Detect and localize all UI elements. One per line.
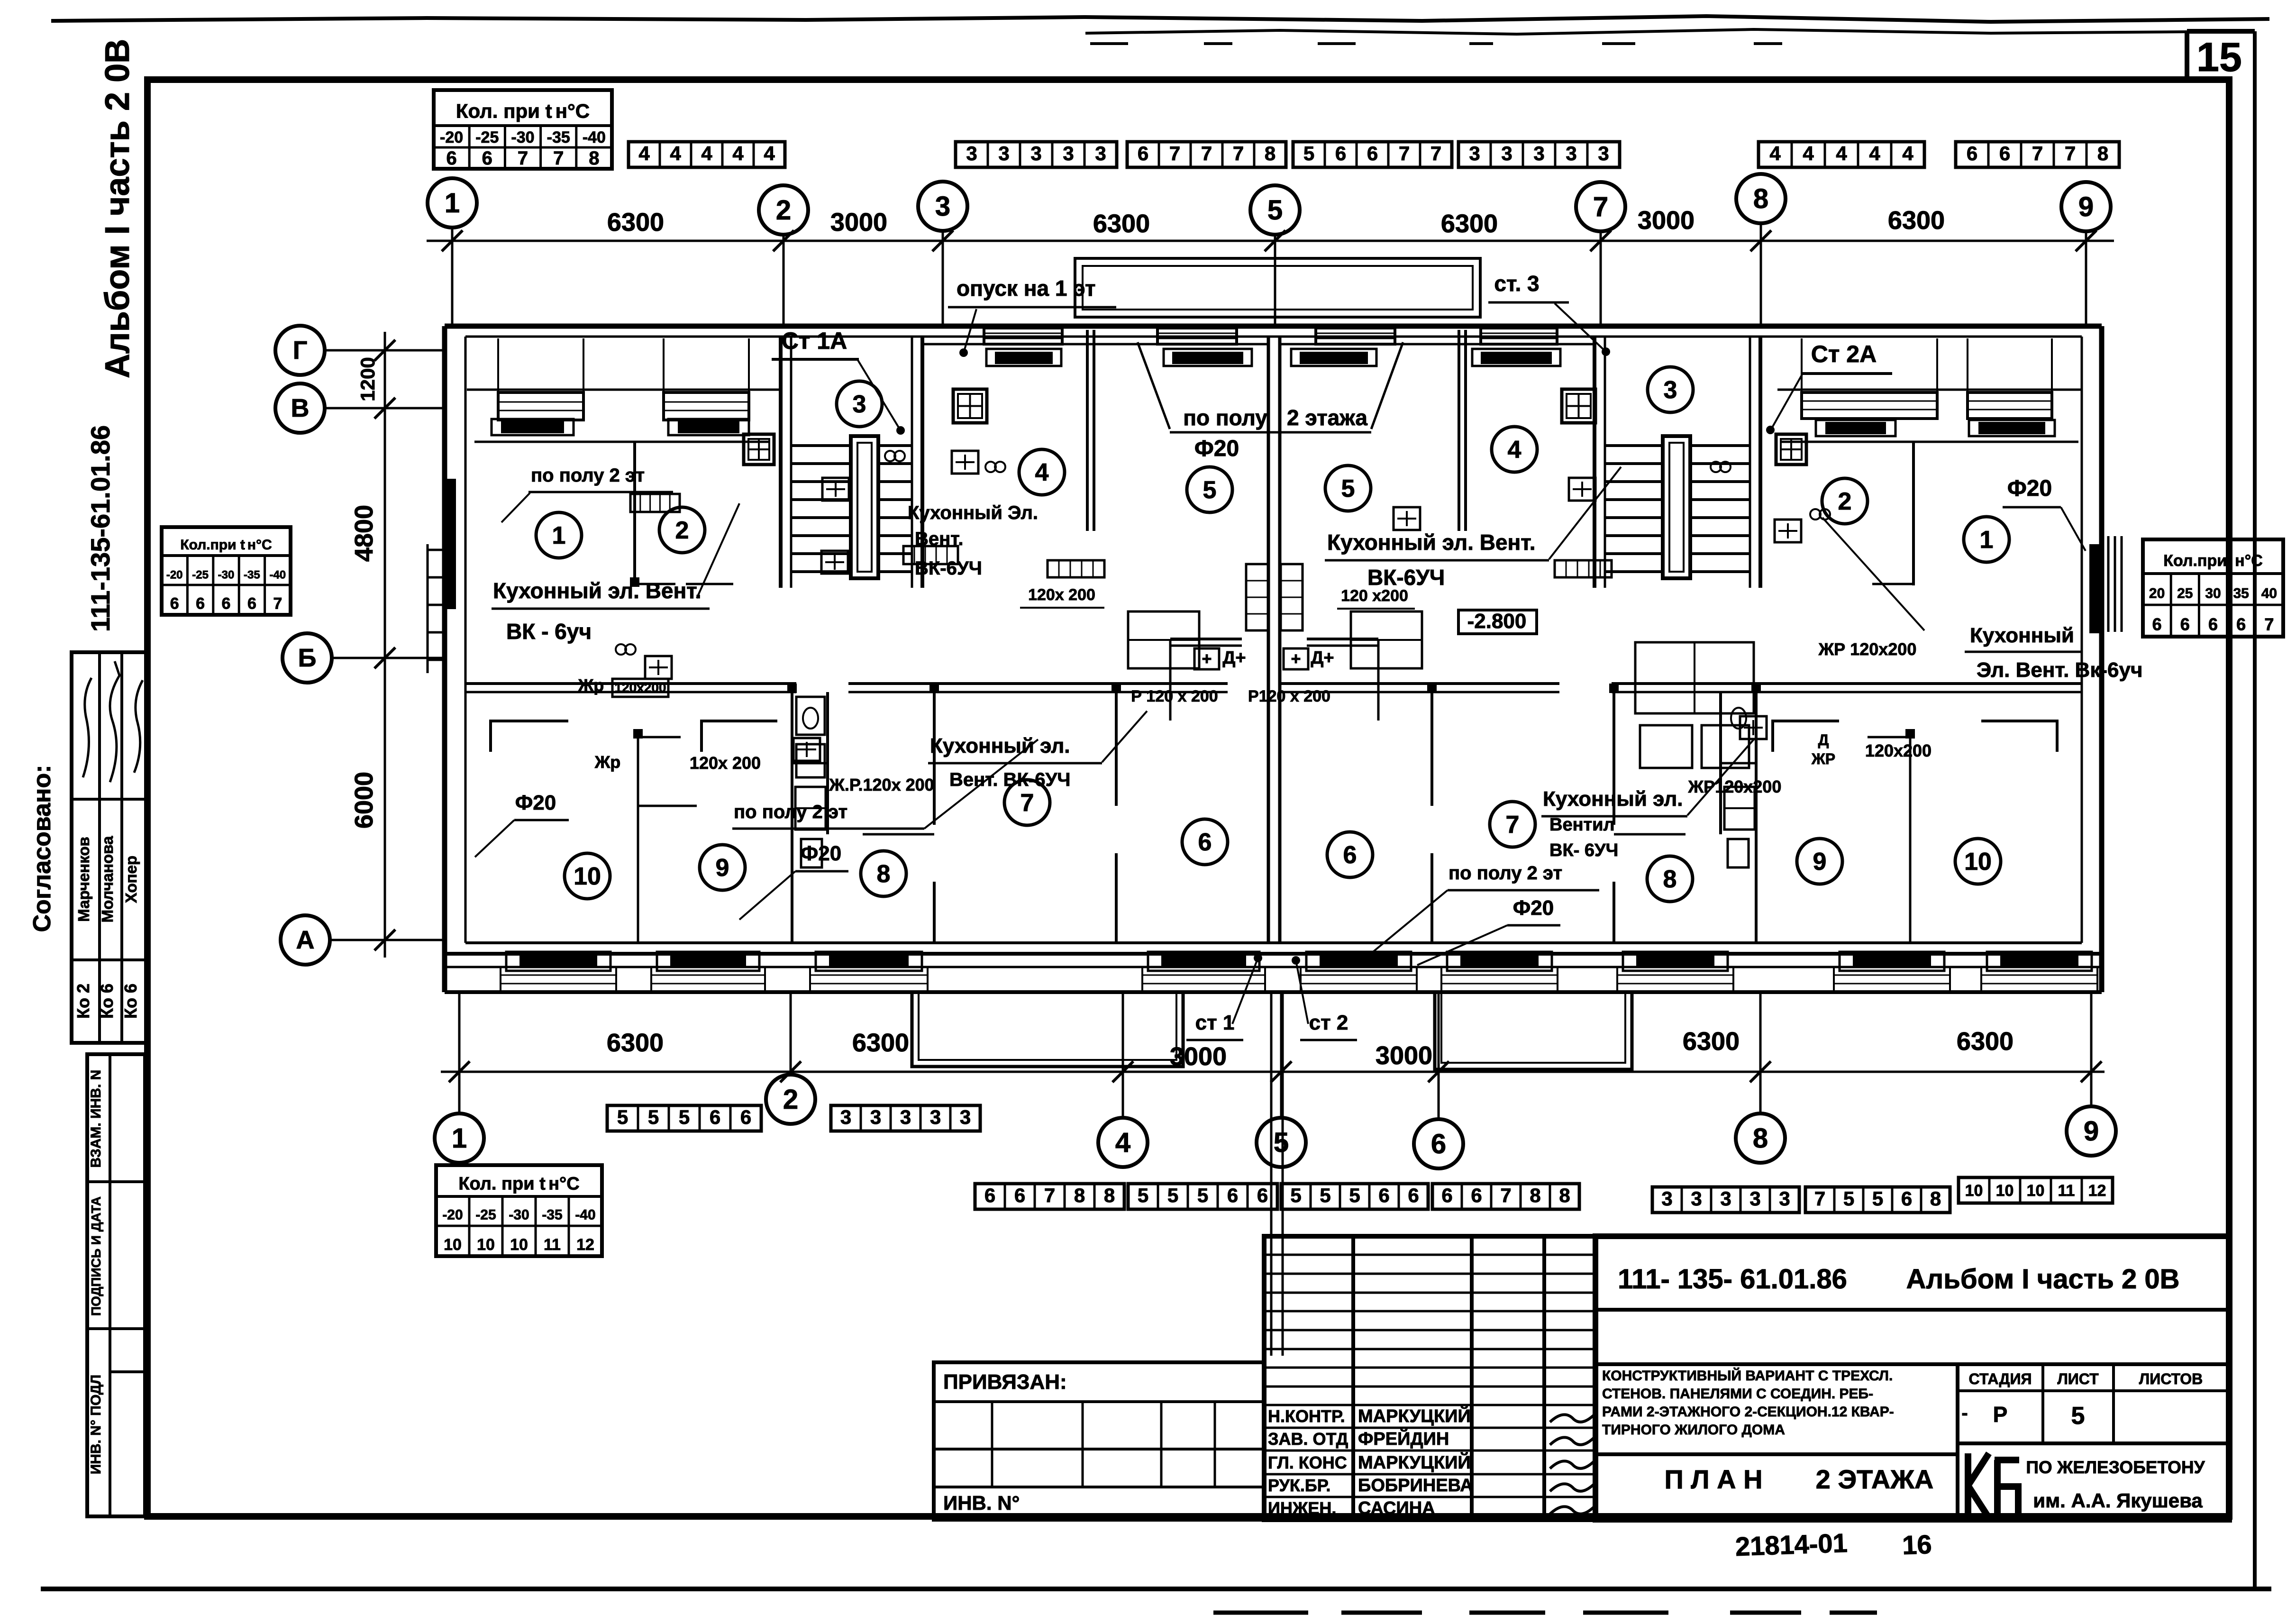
svg-text:6: 6 xyxy=(196,594,205,612)
svg-text:1: 1 xyxy=(445,188,460,219)
svg-text:40: 40 xyxy=(2261,585,2277,601)
svg-text:7: 7 xyxy=(273,594,282,612)
svg-text:-25: -25 xyxy=(475,128,499,146)
svg-text:Кухонный эл.: Кухонный эл. xyxy=(1543,787,1683,811)
svg-text:1: 1 xyxy=(552,522,566,549)
svg-text:РУК.БР.: РУК.БР. xyxy=(1268,1476,1330,1495)
svg-text:10: 10 xyxy=(1996,1182,2014,1200)
svg-text:5: 5 xyxy=(1341,475,1355,502)
svg-text:6300: 6300 xyxy=(1441,210,1498,238)
svg-text:2: 2 xyxy=(675,517,689,544)
svg-text:120х200: 120х200 xyxy=(1865,741,1932,760)
svg-text:7: 7 xyxy=(1430,142,1441,164)
svg-text:5: 5 xyxy=(1274,1127,1289,1158)
svg-text:2 ЭТАЖА: 2 ЭТАЖА xyxy=(1816,1464,1934,1494)
svg-text:3: 3 xyxy=(935,191,950,222)
svg-text:ИНВ. N°: ИНВ. N° xyxy=(943,1492,1020,1514)
svg-text:10: 10 xyxy=(574,863,601,890)
svg-text:-25: -25 xyxy=(192,568,209,581)
svg-text:-: - xyxy=(1961,1403,1968,1423)
svg-text:25: 25 xyxy=(2177,585,2193,601)
svg-text:8: 8 xyxy=(1753,183,1768,214)
svg-text:6300: 6300 xyxy=(1683,1027,1740,1056)
svg-text:3: 3 xyxy=(1691,1187,1702,1210)
svg-text:7: 7 xyxy=(1399,142,1410,164)
svg-text:5: 5 xyxy=(617,1106,628,1128)
svg-text:6300: 6300 xyxy=(607,1029,664,1057)
svg-text:12: 12 xyxy=(576,1236,594,1254)
svg-text:6: 6 xyxy=(170,594,179,612)
svg-text:1: 1 xyxy=(452,1123,467,1154)
svg-text:10: 10 xyxy=(510,1236,528,1254)
svg-text:СТАДИЯ: СТАДИЯ xyxy=(1969,1370,2032,1387)
svg-text:-30: -30 xyxy=(511,128,534,146)
svg-text:Ст 1А: Ст 1А xyxy=(782,328,847,354)
svg-text:6: 6 xyxy=(1999,142,2010,164)
svg-text:САСИНА: САСИНА xyxy=(1358,1498,1435,1518)
svg-text:21814-01: 21814-01 xyxy=(1735,1528,1848,1561)
svg-text:Ф20: Ф20 xyxy=(515,791,556,814)
svg-text:ВК-6УЧ: ВК-6УЧ xyxy=(915,558,982,579)
svg-text:4: 4 xyxy=(701,142,712,164)
svg-text:3: 3 xyxy=(1661,1187,1672,1210)
svg-text:6: 6 xyxy=(1378,1184,1389,1206)
svg-text:Д+: Д+ xyxy=(1311,648,1334,668)
svg-text:6: 6 xyxy=(1198,829,1212,856)
svg-text:5: 5 xyxy=(1872,1187,1883,1210)
svg-text:Кол.приt н°С: Кол.приt н°С xyxy=(2163,552,2263,570)
svg-text:8: 8 xyxy=(589,148,599,169)
svg-text:по полу: по полу xyxy=(1183,405,1267,430)
svg-text:Согласовано:: Согласовано: xyxy=(28,765,56,932)
svg-text:6: 6 xyxy=(1901,1187,1912,1210)
svg-text:8: 8 xyxy=(877,860,891,888)
svg-text:7: 7 xyxy=(553,148,564,169)
svg-text:ЖР: ЖР xyxy=(1811,750,1835,767)
svg-text:6: 6 xyxy=(222,594,231,612)
svg-text:10: 10 xyxy=(2027,1182,2045,1200)
svg-text:6300: 6300 xyxy=(607,208,664,237)
svg-text:ВК- 6УЧ: ВК- 6УЧ xyxy=(1549,840,1618,860)
svg-text:ФРЕЙДИН: ФРЕЙДИН xyxy=(1358,1428,1449,1449)
svg-text:6300: 6300 xyxy=(1093,210,1150,238)
svg-text:СТЕНОВ. ПАНЕЛЯМИ С СОЕДИН. РЕБ: СТЕНОВ. ПАНЕЛЯМИ С СОЕДИН. РЕБ- xyxy=(1602,1386,1873,1402)
svg-text:16: 16 xyxy=(1902,1529,1932,1560)
svg-text:20: 20 xyxy=(2149,585,2165,601)
svg-text:3: 3 xyxy=(900,1106,911,1128)
svg-text:3: 3 xyxy=(1720,1187,1731,1210)
svg-text:Жр: Жр xyxy=(594,752,621,772)
svg-text:3: 3 xyxy=(840,1106,851,1128)
svg-text:им. А.А. Якушева: им. А.А. Якушева xyxy=(2033,1489,2203,1512)
svg-text:8: 8 xyxy=(1559,1184,1570,1206)
svg-text:2: 2 xyxy=(1838,488,1852,515)
svg-text:Д: Д xyxy=(1818,731,1829,748)
svg-text:А: А xyxy=(296,926,315,954)
svg-text:10: 10 xyxy=(444,1236,462,1254)
svg-text:9: 9 xyxy=(2084,1116,2099,1147)
svg-text:+: + xyxy=(1291,649,1301,668)
svg-text:7: 7 xyxy=(1020,789,1034,817)
svg-text:Д+: Д+ xyxy=(1222,648,1246,668)
svg-text:5: 5 xyxy=(679,1106,690,1128)
svg-text:7: 7 xyxy=(1233,142,1244,164)
svg-text:ЛИСТОВ: ЛИСТОВ xyxy=(2139,1370,2203,1387)
svg-text:3: 3 xyxy=(1469,142,1480,164)
svg-text:-40: -40 xyxy=(583,128,606,146)
svg-text:4: 4 xyxy=(1115,1127,1130,1158)
svg-text:5: 5 xyxy=(1303,142,1314,164)
svg-text:3: 3 xyxy=(1779,1187,1790,1210)
svg-text:6: 6 xyxy=(482,148,492,169)
svg-text:Марченков: Марченков xyxy=(75,837,92,922)
svg-text:5: 5 xyxy=(1843,1187,1854,1210)
svg-text:Ф20: Ф20 xyxy=(1513,896,1554,920)
svg-text:3: 3 xyxy=(1749,1187,1760,1210)
svg-text:4: 4 xyxy=(670,142,681,164)
svg-text:7: 7 xyxy=(1169,142,1180,164)
svg-text:Р: Р xyxy=(1993,1402,2008,1427)
svg-text:2: 2 xyxy=(783,1084,798,1115)
svg-text:120х200: 120х200 xyxy=(614,680,666,695)
svg-text:Ф20: Ф20 xyxy=(2007,476,2052,501)
svg-text:ВЗАМ. ИНВ. N: ВЗАМ. ИНВ. N xyxy=(88,1070,104,1168)
svg-text:30: 30 xyxy=(2205,585,2221,601)
svg-text:2: 2 xyxy=(776,195,791,226)
svg-text:Ко 6: Ко 6 xyxy=(121,984,140,1019)
svg-text:-20: -20 xyxy=(166,568,183,581)
svg-text:8: 8 xyxy=(1104,1184,1115,1206)
svg-text:опуск на 1 эт: опуск на 1 эт xyxy=(957,276,1096,301)
svg-text:ПОДПИСЬ И ДАТА: ПОДПИСЬ И ДАТА xyxy=(89,1196,103,1316)
svg-text:7: 7 xyxy=(2264,615,2274,634)
svg-text:ст. 3: ст. 3 xyxy=(1494,271,1539,296)
svg-text:7: 7 xyxy=(518,148,528,169)
svg-text:Р120 х 200: Р120 х 200 xyxy=(1248,687,1330,705)
svg-text:Эл. Вент. Вк-6уч: Эл. Вент. Вк-6уч xyxy=(1977,658,2143,682)
svg-text:120х 200: 120х 200 xyxy=(1028,586,1095,604)
svg-text:3: 3 xyxy=(930,1106,941,1128)
svg-text:5: 5 xyxy=(1349,1184,1360,1206)
svg-text:4: 4 xyxy=(1803,142,1814,164)
svg-text:-40: -40 xyxy=(575,1207,595,1223)
svg-text:ЖР120х200: ЖР120х200 xyxy=(1688,777,1782,796)
svg-text:-30: -30 xyxy=(218,568,235,581)
svg-text:12: 12 xyxy=(2088,1182,2106,1200)
svg-text:2 этажа: 2 этажа xyxy=(1287,405,1367,430)
svg-text:Кухонный эл. Вент.: Кухонный эл. Вент. xyxy=(493,578,702,603)
svg-text:4: 4 xyxy=(732,142,744,164)
svg-text:5: 5 xyxy=(1267,195,1283,226)
svg-text:3: 3 xyxy=(960,1106,971,1128)
svg-text:5: 5 xyxy=(2071,1402,2085,1430)
svg-text:Ж.Р.120х 200: Ж.Р.120х 200 xyxy=(829,775,934,794)
svg-text:5: 5 xyxy=(1203,476,1217,504)
svg-text:5: 5 xyxy=(1320,1184,1330,1206)
svg-text:3: 3 xyxy=(1664,376,1677,404)
svg-text:6300: 6300 xyxy=(852,1029,909,1057)
svg-text:8: 8 xyxy=(1930,1187,1941,1210)
svg-text:6: 6 xyxy=(1431,1129,1446,1159)
svg-text:6: 6 xyxy=(1335,142,1346,164)
svg-text:3: 3 xyxy=(1095,142,1106,164)
svg-text:ПО ЖЕЛЕЗОБЕТОНУ: ПО ЖЕЛЕЗОБЕТОНУ xyxy=(2026,1458,2205,1477)
svg-text:Ст 2А: Ст 2А xyxy=(1811,341,1877,367)
svg-text:6300: 6300 xyxy=(1957,1027,2014,1056)
svg-text:3: 3 xyxy=(998,142,1009,164)
svg-text:6: 6 xyxy=(1014,1184,1025,1206)
svg-text:3: 3 xyxy=(1501,142,1512,164)
svg-text:П Л А Н: П Л А Н xyxy=(1664,1464,1762,1494)
svg-text:-2.800: -2.800 xyxy=(1467,610,1527,633)
svg-text:11: 11 xyxy=(544,1236,561,1254)
svg-text:Ф20: Ф20 xyxy=(801,842,842,865)
svg-text:8: 8 xyxy=(1663,866,1677,893)
svg-text:3000: 3000 xyxy=(830,208,887,237)
svg-text:6: 6 xyxy=(2208,615,2218,634)
svg-text:-35: -35 xyxy=(547,128,570,146)
svg-text:ГЛ. КОНС: ГЛ. КОНС xyxy=(1268,1453,1347,1472)
svg-text:120 х200: 120 х200 xyxy=(1341,587,1408,605)
svg-text:Г: Г xyxy=(293,336,308,365)
svg-text:4: 4 xyxy=(1869,142,1880,164)
svg-text:3: 3 xyxy=(853,391,866,418)
svg-text:+: + xyxy=(1202,649,1212,668)
svg-text:6: 6 xyxy=(1441,1184,1452,1206)
svg-text:Б: Б xyxy=(298,644,317,672)
svg-text:9: 9 xyxy=(1813,848,1827,876)
svg-text:7: 7 xyxy=(1593,192,1608,222)
svg-text:ПРИВЯЗАН:: ПРИВЯЗАН: xyxy=(943,1370,1067,1394)
svg-text:111-135-61.01.86: 111-135-61.01.86 xyxy=(85,425,115,632)
svg-text:-20: -20 xyxy=(442,1207,463,1223)
svg-text:8: 8 xyxy=(2097,142,2108,164)
svg-text:3: 3 xyxy=(1533,142,1544,164)
svg-text:МАРКУЦКИЙ: МАРКУЦКИЙ xyxy=(1358,1451,1471,1473)
svg-text:Кол. при t н°С: Кол. при t н°С xyxy=(456,100,590,122)
svg-text:10: 10 xyxy=(477,1236,495,1254)
svg-text:6: 6 xyxy=(1343,841,1357,869)
svg-text:БОБРИНЕВА: БОБРИНЕВА xyxy=(1358,1476,1473,1496)
svg-text:10: 10 xyxy=(1965,1182,1983,1200)
svg-text:11: 11 xyxy=(2058,1182,2075,1200)
svg-text:6: 6 xyxy=(1257,1184,1268,1206)
svg-text:6000: 6000 xyxy=(350,772,378,829)
svg-text:ВК - 6уч: ВК - 6уч xyxy=(506,619,592,644)
svg-text:Кухонный эл. Вент.: Кухонный эл. Вент. xyxy=(1327,530,1536,555)
svg-text:5: 5 xyxy=(1167,1184,1178,1206)
svg-text:7: 7 xyxy=(1500,1184,1511,1206)
svg-text:Кол. при t н°С: Кол. при t н°С xyxy=(458,1174,579,1194)
svg-text:6: 6 xyxy=(2180,615,2190,634)
svg-text:4: 4 xyxy=(1769,142,1781,164)
svg-text:-20: -20 xyxy=(440,128,463,146)
svg-text:7: 7 xyxy=(1814,1187,1825,1210)
svg-text:Альбом I часть 2 0В: Альбом I часть 2 0В xyxy=(1906,1264,2180,1295)
svg-text:3: 3 xyxy=(1063,142,1074,164)
svg-text:4800: 4800 xyxy=(350,505,378,562)
svg-text:-35: -35 xyxy=(244,568,260,581)
svg-text:ЛИСТ: ЛИСТ xyxy=(2057,1370,2099,1387)
svg-text:9: 9 xyxy=(2078,192,2094,222)
svg-text:Кол.при t н°С: Кол.при t н°С xyxy=(180,537,272,553)
svg-text:по полу 2 эт: по полу 2 эт xyxy=(531,465,645,486)
svg-text:-35: -35 xyxy=(542,1207,562,1223)
svg-text:5: 5 xyxy=(1197,1184,1208,1206)
svg-text:ст 1: ст 1 xyxy=(1195,1011,1235,1034)
svg-text:120х 200: 120х 200 xyxy=(690,753,761,773)
svg-text:Кухонный Эл.: Кухонный Эл. xyxy=(908,502,1038,523)
svg-text:6: 6 xyxy=(984,1184,995,1206)
svg-text:Жр: Жр xyxy=(578,675,604,695)
svg-text:Кухонный: Кухонный xyxy=(1970,624,2074,647)
svg-text:15: 15 xyxy=(2196,35,2242,80)
svg-text:4: 4 xyxy=(1035,459,1049,486)
svg-text:РАМИ 2-ЭТАЖНОГО 2-СЕКЦИОН.12 К: РАМИ 2-ЭТАЖНОГО 2-СЕКЦИОН.12 КВАР- xyxy=(1602,1404,1894,1420)
svg-text:6: 6 xyxy=(446,148,456,169)
svg-text:5: 5 xyxy=(1138,1184,1148,1206)
svg-text:В: В xyxy=(291,394,310,422)
svg-text:6: 6 xyxy=(710,1106,720,1128)
svg-text:3: 3 xyxy=(1598,142,1609,164)
svg-text:6300: 6300 xyxy=(1888,206,1945,235)
svg-text:111- 135- 61.01.86: 111- 135- 61.01.86 xyxy=(1618,1264,1847,1295)
svg-text:3: 3 xyxy=(870,1106,881,1128)
svg-text:Ф20: Ф20 xyxy=(1194,436,1239,461)
svg-text:Р 120 х 200: Р 120 х 200 xyxy=(1131,687,1218,705)
svg-text:6: 6 xyxy=(1367,142,1378,164)
svg-text:9: 9 xyxy=(716,854,729,882)
svg-text:7: 7 xyxy=(2032,142,2043,164)
svg-text:ТИРНОГО ЖИЛОГО ДОМА: ТИРНОГО ЖИЛОГО ДОМА xyxy=(1602,1422,1785,1438)
svg-text:Альбом I часть 2 0В: Альбом I часть 2 0В xyxy=(99,39,137,378)
svg-text:7: 7 xyxy=(1506,811,1520,839)
svg-text:5: 5 xyxy=(1290,1184,1301,1206)
svg-text:3000: 3000 xyxy=(1638,206,1695,235)
svg-text:6: 6 xyxy=(1967,142,1977,164)
svg-text:6: 6 xyxy=(247,594,256,612)
svg-text:1: 1 xyxy=(1980,526,1994,554)
svg-text:4: 4 xyxy=(1836,142,1847,164)
svg-text:Кухонный эл.: Кухонный эл. xyxy=(930,734,1070,757)
svg-text:ЖР 120х200: ЖР 120х200 xyxy=(1818,639,1917,659)
svg-text:ИНВ. N° ПОДЛ: ИНВ. N° ПОДЛ xyxy=(88,1375,104,1474)
svg-text:Вент.: Вент. xyxy=(915,529,963,549)
svg-text:8: 8 xyxy=(1265,142,1276,164)
svg-text:10: 10 xyxy=(1964,848,1992,876)
svg-text:по полу 2 эт: по полу 2 эт xyxy=(1449,863,1562,884)
svg-text:6: 6 xyxy=(2152,615,2162,634)
svg-text:Вент. ВК-6УЧ: Вент. ВК-6УЧ xyxy=(949,769,1070,790)
svg-text:3: 3 xyxy=(966,142,977,164)
svg-text:6: 6 xyxy=(1138,142,1148,164)
svg-text:8: 8 xyxy=(1530,1184,1540,1206)
svg-text:3: 3 xyxy=(1566,142,1576,164)
svg-text:-30: -30 xyxy=(509,1207,529,1223)
svg-text:6: 6 xyxy=(740,1106,751,1128)
svg-text:7: 7 xyxy=(2065,142,2076,164)
svg-text:35: 35 xyxy=(2233,585,2249,601)
svg-text:КОНСТРУКТИВНЫЙ ВАРИАНТ С ТРЕХС: КОНСТРУКТИВНЫЙ ВАРИАНТ С ТРЕХСЛ. xyxy=(1602,1368,1893,1384)
svg-text:4: 4 xyxy=(638,142,650,164)
svg-text:ВК-6УЧ: ВК-6УЧ xyxy=(1367,565,1445,590)
svg-text:5: 5 xyxy=(648,1106,659,1128)
svg-text:6: 6 xyxy=(2236,615,2246,634)
svg-text:Вентил: Вентил xyxy=(1549,815,1615,835)
svg-text:6: 6 xyxy=(1227,1184,1238,1206)
svg-text:8: 8 xyxy=(1074,1184,1085,1206)
svg-text:7: 7 xyxy=(1044,1184,1055,1206)
svg-text:Хопер: Хопер xyxy=(122,856,140,903)
svg-text:Молчанова: Молчанова xyxy=(99,836,116,922)
svg-text:-40: -40 xyxy=(269,568,286,581)
svg-text:-25: -25 xyxy=(475,1207,496,1223)
svg-text:Н.КОНТР.: Н.КОНТР. xyxy=(1268,1406,1345,1426)
svg-text:4: 4 xyxy=(764,142,775,164)
svg-text:ст 2: ст 2 xyxy=(1309,1011,1348,1034)
svg-text:3: 3 xyxy=(1030,142,1041,164)
svg-text:7: 7 xyxy=(1201,142,1212,164)
svg-text:8: 8 xyxy=(1753,1123,1768,1154)
svg-text:1200: 1200 xyxy=(356,357,379,401)
svg-text:3000: 3000 xyxy=(1376,1041,1432,1070)
svg-text:ИНЖЕН.: ИНЖЕН. xyxy=(1268,1498,1336,1518)
svg-text:4: 4 xyxy=(1902,142,1913,164)
svg-text:ЗАВ. ОТД: ЗАВ. ОТД xyxy=(1268,1429,1348,1449)
svg-text:Ко 2: Ко 2 xyxy=(73,984,93,1019)
svg-text:Ко 6: Ко 6 xyxy=(97,984,117,1019)
svg-text:6: 6 xyxy=(1471,1184,1482,1206)
svg-text:МАРКУЦКИЙ: МАРКУЦКИЙ xyxy=(1358,1405,1471,1426)
svg-text:6: 6 xyxy=(1408,1184,1419,1206)
svg-text:4: 4 xyxy=(1508,436,1522,464)
svg-text:по полу 2 эт: по полу 2 эт xyxy=(734,802,847,822)
